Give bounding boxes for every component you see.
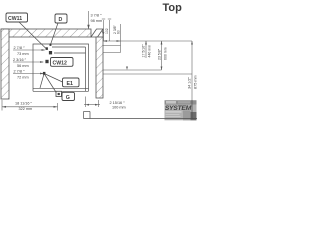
- svg-text:2 7/8 ′′: 2 7/8 ′′: [14, 46, 25, 50]
- svg-text:2 3/16 ′′: 2 3/16 ′′: [13, 58, 26, 62]
- svg-text:D: D: [59, 17, 63, 23]
- svg-text:2 7/8 ′′: 2 7/8 ′′: [14, 69, 25, 73]
- svg-text:G: G: [66, 95, 70, 101]
- svg-text:17 5/16′′: 17 5/16′′: [141, 44, 145, 57]
- svg-text:56 mm: 56 mm: [17, 64, 29, 68]
- svg-text:600 mm: 600 mm: [163, 47, 167, 60]
- svg-text:18 11/16 ′′: 18 11/16 ′′: [15, 102, 32, 106]
- svg-text:E1: E1: [67, 81, 74, 87]
- svg-text:98 mm: 98 mm: [91, 19, 103, 23]
- svg-text:100 mm: 100 mm: [112, 105, 126, 109]
- svg-text:CW11: CW11: [8, 16, 22, 22]
- svg-text:72 mm: 72 mm: [17, 76, 29, 80]
- svg-text:34 1/2′′: 34 1/2′′: [187, 77, 191, 89]
- svg-text:Top: Top: [163, 2, 183, 14]
- svg-text:322 mm: 322 mm: [19, 107, 33, 111]
- svg-text:102: 102: [105, 28, 109, 34]
- svg-text:23 5/8′′: 23 5/8′′: [157, 49, 161, 60]
- svg-text:3 7/8 ′′: 3 7/8 ′′: [91, 14, 102, 18]
- svg-text:875 mm: 875 mm: [194, 75, 198, 89]
- svg-text:73 mm: 73 mm: [17, 52, 29, 56]
- svg-text:60: 60: [117, 30, 121, 34]
- svg-text:CW12: CW12: [53, 60, 68, 66]
- svg-text:440 mm: 440 mm: [147, 45, 151, 58]
